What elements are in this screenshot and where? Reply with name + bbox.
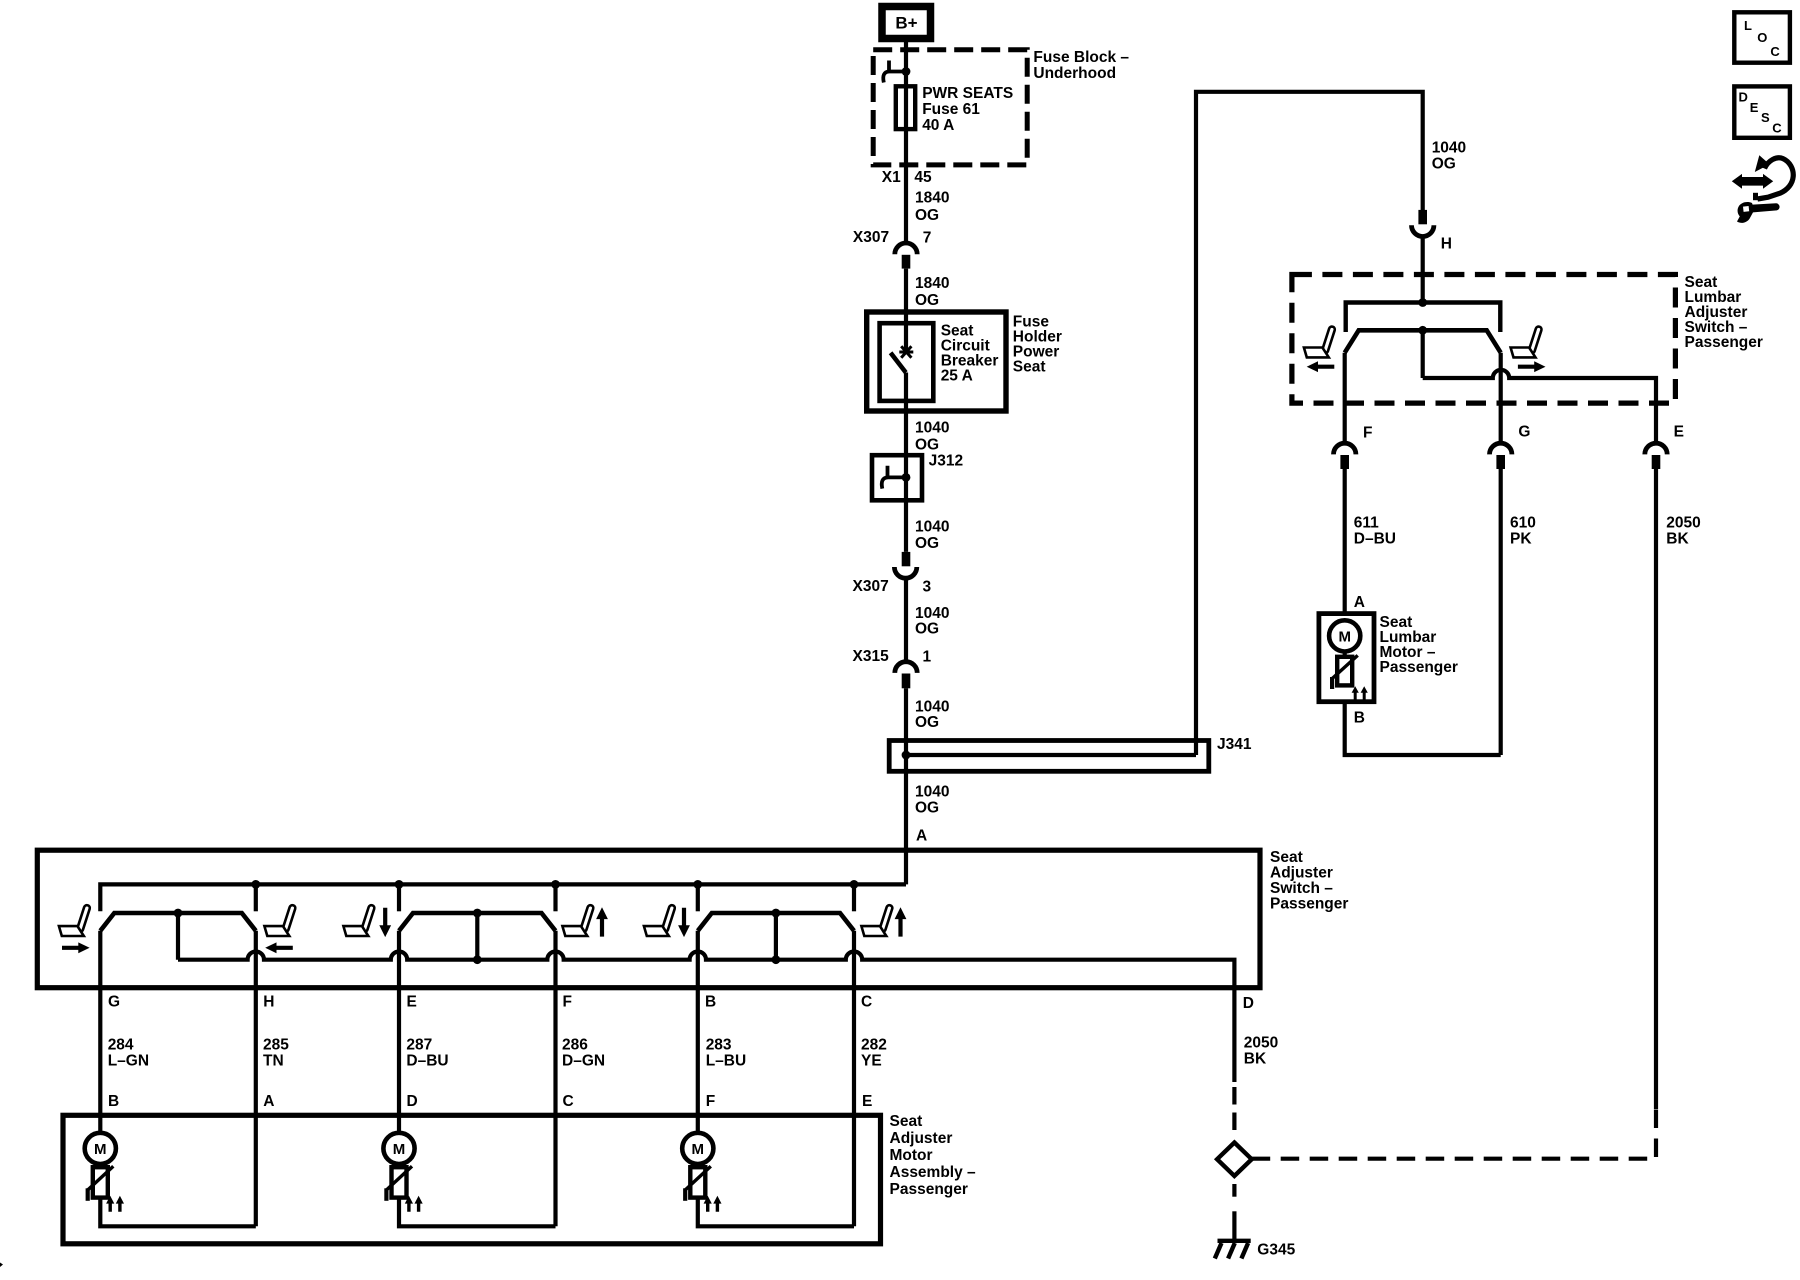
- svg-text:E: E: [862, 1093, 872, 1110]
- fuse clip terminal: [883, 61, 906, 83]
- seat adjuster motor assembly box: [63, 1115, 881, 1244]
- switch 3 rear height contact: [698, 913, 854, 931]
- svg-text:Adjuster: Adjuster: [890, 1130, 953, 1147]
- ground symbol G345: [1215, 1241, 1251, 1259]
- wire C 282 YE: [852, 931, 856, 1227]
- seat icon front down: [343, 904, 375, 936]
- switch 3 tap: [774, 913, 778, 960]
- svg-text:BK: BK: [1244, 1051, 1267, 1068]
- svg-text:D: D: [407, 1093, 418, 1110]
- svg-text:S: S: [1761, 110, 1770, 125]
- lumbar seat icon extend: [1511, 326, 1543, 358]
- fuse holder power seat outer box: [867, 312, 1006, 411]
- lumbar motor M: [1329, 620, 1360, 689]
- svg-text:1: 1: [923, 649, 932, 666]
- svg-text:OG: OG: [915, 714, 939, 731]
- svg-text:Seat: Seat: [890, 1113, 923, 1130]
- svg-text:1840: 1840: [915, 275, 949, 292]
- seat adjuster switch passenger box: [37, 850, 1260, 988]
- svg-text:D–GN: D–GN: [562, 1053, 605, 1070]
- connector X307 pin 3: [894, 552, 916, 578]
- svg-text:E: E: [1750, 100, 1759, 115]
- svg-text:1040: 1040: [915, 699, 949, 716]
- page edge artifact: [0, 1263, 3, 1268]
- svg-text:OG: OG: [915, 621, 939, 638]
- wire breaker to J312: [904, 373, 908, 552]
- wire B+ to fuse: [904, 42, 908, 243]
- svg-text:Fuse 61: Fuse 61: [922, 101, 980, 118]
- seat lumbar motor box: [1319, 614, 1374, 702]
- svg-text:F: F: [1363, 425, 1372, 442]
- svg-text:OG: OG: [915, 535, 939, 552]
- switch common rail with bumps to pin D: [178, 951, 1234, 1082]
- wire 1040 OG X307 to X315: [904, 578, 908, 662]
- svg-text:BK: BK: [1666, 530, 1689, 547]
- svg-text:L: L: [1744, 18, 1752, 33]
- svg-text:F: F: [706, 1093, 715, 1110]
- svg-text:C: C: [563, 1093, 574, 1110]
- svg-text:7: 7: [923, 230, 932, 247]
- svg-text:M: M: [94, 1141, 107, 1158]
- svg-text:OG: OG: [915, 292, 939, 309]
- svg-text:M: M: [1338, 628, 1351, 645]
- wire lumbar motor pin B loop to G: [1345, 702, 1501, 755]
- bus stub H: [254, 884, 258, 911]
- svg-text:1040: 1040: [915, 605, 949, 622]
- lumbar fixed contact bracket: [1346, 303, 1501, 333]
- svg-text:L–GN: L–GN: [108, 1053, 149, 1070]
- connector E: [1645, 443, 1667, 469]
- bus stub C: [852, 884, 856, 911]
- svg-text:M: M: [692, 1141, 705, 1158]
- svg-text:G: G: [108, 994, 120, 1011]
- wrench icon: [1737, 202, 1780, 223]
- bus stub B: [696, 884, 700, 911]
- svg-text:H: H: [263, 994, 274, 1011]
- wire F 286 D-GN: [553, 931, 557, 1227]
- svg-text:Switch –: Switch –: [1270, 880, 1333, 897]
- svg-text:A: A: [916, 828, 927, 845]
- LOC reference box: [1734, 12, 1790, 62]
- svg-text:1040: 1040: [1432, 140, 1466, 157]
- svg-text:X315: X315: [853, 648, 890, 665]
- svg-text:Motor: Motor: [890, 1147, 933, 1164]
- svg-text:PK: PK: [1510, 530, 1532, 547]
- svg-text:287: 287: [406, 1037, 432, 1054]
- svg-text:D: D: [1243, 995, 1254, 1012]
- svg-text:H: H: [1441, 236, 1452, 253]
- svg-text:E: E: [407, 994, 417, 1011]
- svg-text:TN: TN: [263, 1053, 284, 1070]
- svg-text:X1: X1: [882, 169, 901, 186]
- junction dot H feed: [1418, 298, 1427, 307]
- svg-text:2050: 2050: [1666, 515, 1700, 532]
- junction dot J312: [902, 473, 911, 482]
- splice J341 box: [889, 741, 1209, 772]
- svg-text:Assembly –: Assembly –: [890, 1164, 977, 1181]
- svg-text:L–BU: L–BU: [706, 1053, 746, 1070]
- svg-text:O: O: [1757, 30, 1767, 45]
- wire J341 up and over to lumbar switch: [1196, 92, 1423, 755]
- splice diamond S206: [1217, 1143, 1252, 1176]
- switch feed bus: [100, 884, 906, 911]
- wire 611 D-BU to lumbar motor pin A: [1343, 469, 1347, 614]
- junction dot J341: [902, 751, 911, 760]
- J312 clip symbol: [882, 466, 906, 489]
- svg-text:40 A: 40 A: [922, 117, 954, 134]
- connector X307 pin 7: [895, 243, 917, 269]
- lumbar seat icon retract: [1304, 326, 1336, 358]
- circuit breaker blade: [891, 353, 906, 373]
- motor M3 thermal arrows: [704, 1196, 722, 1212]
- dashed wire diamond to ground: [1232, 1184, 1236, 1240]
- wire X315 down through J341 to switch bus: [904, 688, 908, 884]
- svg-text:2050: 2050: [1244, 1035, 1278, 1052]
- svg-text:1040: 1040: [915, 519, 949, 536]
- seat icon move forward: [59, 904, 91, 936]
- svg-text:B: B: [1354, 710, 1365, 727]
- navigation arrows icon: [1732, 155, 1793, 200]
- J341 internal bus line: [906, 753, 1196, 757]
- svg-text:Seat: Seat: [1013, 358, 1046, 375]
- svg-text:OG: OG: [915, 207, 939, 224]
- svg-text:3: 3: [923, 579, 932, 596]
- svg-text:610: 610: [1510, 515, 1536, 532]
- svg-text:A: A: [1354, 594, 1365, 611]
- motor M3 rear height drive: [682, 1133, 854, 1227]
- svg-text:X307: X307: [853, 578, 889, 595]
- motor M1 thermal arrows: [106, 1196, 124, 1212]
- svg-text:B: B: [108, 1093, 119, 1110]
- wire H 285 TN: [254, 931, 258, 1227]
- svg-text:Passenger: Passenger: [1685, 334, 1763, 351]
- svg-text:G: G: [1518, 424, 1530, 441]
- switch 1 tap: [176, 913, 180, 960]
- wire 2050 BK solid part: [1654, 469, 1658, 1109]
- svg-text:G345: G345: [1257, 1241, 1295, 1258]
- svg-text:25 A: 25 A: [941, 367, 973, 384]
- svg-text:YE: YE: [861, 1053, 882, 1070]
- lumbar moving contact: [1345, 330, 1501, 352]
- seat circuit breaker 25A inner box: [880, 323, 934, 401]
- svg-text:1040: 1040: [915, 783, 949, 800]
- svg-text:OG: OG: [1432, 156, 1456, 173]
- lumbar rail with bump over G: [1423, 370, 1656, 403]
- svg-text:Fuse Block –: Fuse Block –: [1033, 49, 1129, 66]
- switch 2 front height contact: [399, 913, 556, 931]
- connector H pin: [1412, 210, 1434, 237]
- svg-text:C: C: [1772, 121, 1782, 136]
- svg-text:45: 45: [914, 169, 932, 186]
- switch 2 tap: [475, 913, 479, 960]
- svg-text:OG: OG: [915, 800, 939, 817]
- bus stub F: [553, 884, 557, 911]
- fuse block underhood dashed box: [873, 50, 1027, 165]
- svg-text:Passenger: Passenger: [890, 1181, 968, 1198]
- lumbar motor thermal arrows: [1352, 686, 1368, 700]
- connector G: [1490, 443, 1512, 469]
- wire 610 PK down to loop: [1499, 469, 1503, 755]
- svg-text:J341: J341: [1217, 736, 1252, 753]
- wire 2050 BK dashed to splice: [1232, 1087, 1236, 1130]
- svg-text:B+: B+: [895, 14, 917, 33]
- svg-text:J312: J312: [929, 453, 963, 470]
- junction dot at fuse clip: [902, 67, 911, 76]
- seat lumbar adjuster switch dashed box: [1292, 275, 1676, 404]
- wire G 284 L-GN: [98, 931, 102, 1133]
- wire 1840 OG to circuit breaker: [904, 269, 908, 352]
- svg-text:OG: OG: [915, 437, 939, 454]
- svg-text:F: F: [563, 994, 572, 1011]
- svg-text:283: 283: [706, 1037, 732, 1054]
- svg-text:M: M: [393, 1141, 406, 1158]
- svg-text:PWR SEATS: PWR SEATS: [922, 85, 1013, 102]
- wire E 287 D-BU: [397, 931, 401, 1133]
- svg-text:Adjuster: Adjuster: [1270, 865, 1333, 882]
- svg-text:1840: 1840: [915, 190, 949, 207]
- splice J312 box: [872, 455, 922, 500]
- circuit breaker contact asterisk: [899, 346, 913, 357]
- fuse PWR SEATS Fuse 61 40A: [896, 86, 915, 129]
- motor M2 thermal arrows: [405, 1196, 423, 1212]
- seat icon rear up: [861, 904, 893, 936]
- svg-text:C: C: [861, 994, 872, 1011]
- lumbar tap: [1421, 330, 1425, 378]
- svg-text:611: 611: [1354, 515, 1379, 532]
- switch 1 fwd/back contact: [100, 913, 256, 931]
- svg-text:Underhood: Underhood: [1033, 65, 1116, 82]
- svg-text:E: E: [1674, 424, 1684, 441]
- svg-text:Seat: Seat: [1270, 849, 1303, 866]
- svg-text:A: A: [263, 1093, 274, 1110]
- svg-text:D: D: [1739, 89, 1748, 104]
- svg-text:D–BU: D–BU: [1354, 530, 1396, 547]
- svg-text:285: 285: [263, 1037, 289, 1054]
- bus stub E: [397, 884, 401, 911]
- bus junction dots: [251, 880, 858, 889]
- seat icon move rearward: [264, 904, 296, 936]
- svg-text:286: 286: [562, 1037, 588, 1054]
- motor M1 horizontal drive: [85, 1133, 256, 1227]
- svg-text:284: 284: [108, 1037, 134, 1054]
- connector F: [1334, 443, 1356, 469]
- connector X315 pin 1: [895, 662, 917, 689]
- svg-text:X307: X307: [853, 229, 889, 246]
- wire G lumbar switch to connector: [1499, 353, 1503, 444]
- wire E lumbar rail to connector: [1654, 403, 1658, 443]
- battery feed B+: [882, 7, 931, 39]
- svg-text:D–BU: D–BU: [406, 1053, 448, 1070]
- seat icon front up: [562, 904, 594, 936]
- svg-text:1040: 1040: [915, 420, 949, 437]
- wire H into lumbar switch: [1421, 237, 1425, 303]
- dashed link diamond to lumbar ground wire: [1252, 1109, 1656, 1159]
- motor M2 front height drive: [383, 1133, 555, 1227]
- wire B 283 L-BU: [696, 931, 700, 1133]
- svg-text:Passenger: Passenger: [1380, 659, 1458, 676]
- svg-text:C: C: [1770, 44, 1780, 59]
- wire F lumbar switch to connector: [1343, 353, 1347, 444]
- svg-text:Passenger: Passenger: [1270, 896, 1348, 913]
- svg-text:B: B: [705, 994, 716, 1011]
- DESC reference box: [1734, 86, 1790, 137]
- seat icon rear down: [644, 904, 676, 936]
- svg-text:282: 282: [861, 1037, 887, 1054]
